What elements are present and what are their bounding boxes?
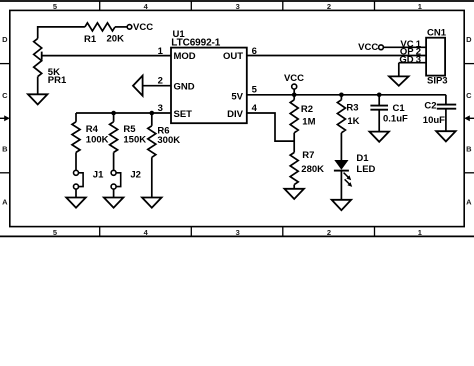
svg-text:J1: J1 bbox=[93, 170, 104, 181]
svg-text:B: B bbox=[466, 144, 472, 153]
svg-text:R7: R7 bbox=[302, 150, 314, 161]
svg-text:A: A bbox=[466, 198, 472, 207]
svg-text:5: 5 bbox=[252, 85, 258, 96]
svg-text:LED: LED bbox=[356, 164, 375, 175]
svg-text:SET: SET bbox=[174, 109, 193, 120]
svg-text:C1: C1 bbox=[393, 103, 406, 114]
svg-text:300K: 300K bbox=[157, 135, 180, 146]
svg-text:OUT: OUT bbox=[223, 51, 243, 62]
svg-text:1K: 1K bbox=[347, 116, 359, 127]
svg-text:CN1: CN1 bbox=[427, 27, 447, 38]
svg-text:SIP3: SIP3 bbox=[427, 75, 448, 86]
svg-text:0.1uF: 0.1uF bbox=[383, 113, 408, 124]
svg-text:R3: R3 bbox=[346, 102, 358, 113]
svg-text:DIV: DIV bbox=[227, 109, 244, 120]
svg-text:VCC: VCC bbox=[284, 73, 304, 84]
svg-text:D: D bbox=[466, 35, 472, 44]
svg-text:1: 1 bbox=[418, 228, 422, 237]
svg-text:VCC: VCC bbox=[358, 42, 378, 53]
svg-text:3: 3 bbox=[416, 54, 421, 65]
svg-text:D: D bbox=[2, 35, 8, 44]
svg-text:R1: R1 bbox=[84, 34, 97, 45]
svg-text:D1: D1 bbox=[356, 153, 369, 164]
svg-text:1: 1 bbox=[418, 2, 422, 11]
svg-text:R2: R2 bbox=[301, 104, 313, 115]
svg-text:280K: 280K bbox=[301, 164, 324, 175]
svg-text:150K: 150K bbox=[123, 134, 146, 145]
svg-text:1M: 1M bbox=[302, 116, 315, 127]
svg-text:100K: 100K bbox=[86, 134, 109, 145]
svg-text:VCC: VCC bbox=[133, 22, 153, 33]
svg-text:C2: C2 bbox=[424, 100, 436, 111]
svg-text:B: B bbox=[2, 144, 8, 153]
svg-text:2: 2 bbox=[327, 2, 331, 11]
svg-text:A: A bbox=[2, 198, 8, 207]
svg-text:5: 5 bbox=[53, 2, 57, 11]
svg-text:5: 5 bbox=[53, 228, 57, 237]
svg-text:2: 2 bbox=[327, 228, 331, 237]
svg-text:J2: J2 bbox=[130, 170, 141, 181]
svg-text:MOD: MOD bbox=[174, 51, 196, 62]
svg-text:C: C bbox=[466, 91, 472, 100]
svg-text:GD: GD bbox=[399, 54, 413, 65]
svg-text:C: C bbox=[2, 91, 8, 100]
svg-text:PR1: PR1 bbox=[48, 75, 67, 86]
svg-text:3: 3 bbox=[236, 228, 240, 237]
svg-text:20K: 20K bbox=[107, 33, 125, 44]
svg-text:3: 3 bbox=[236, 2, 240, 11]
svg-text:LTC6992-1: LTC6992-1 bbox=[171, 38, 220, 49]
svg-text:5V: 5V bbox=[231, 91, 243, 102]
svg-text:GND: GND bbox=[174, 81, 195, 92]
svg-text:10uF: 10uF bbox=[423, 115, 445, 126]
